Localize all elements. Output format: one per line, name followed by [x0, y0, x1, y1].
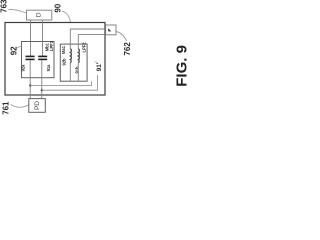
wire C1 lower leg to PD	[29, 60, 31, 98]
svg-text:91a: 91a	[46, 64, 51, 72]
svg-text:91b: 91b	[75, 66, 80, 74]
left LPF box 91a	[22, 42, 55, 78]
junction dot B	[41, 89, 43, 91]
terminal box 762 (antenna port)	[106, 25, 116, 35]
label 91'	[95, 62, 103, 72]
box D (duplexer)	[27, 10, 52, 20]
wire L1 top to terminal (upper)	[70, 29, 105, 49]
wire column 1 (D box to cap C1)	[30, 20, 32, 56]
ground bus B	[42, 75, 98, 90]
inductor L1	[70, 49, 71, 63]
svg-text:92: 92	[9, 46, 18, 55]
junction dot A	[29, 84, 31, 86]
svg-text:LPF1: LPF1	[49, 40, 54, 51]
label 762	[116, 32, 132, 56]
outer module box 90	[5, 23, 105, 96]
svg-text:761: 761	[2, 101, 11, 115]
wire column 2 (D box to cap C2)	[42, 20, 44, 56]
label 92	[9, 46, 21, 55]
svg-text:92b: 92b	[61, 58, 66, 66]
capacitor C1	[26, 56, 35, 59]
svg-text:Ma1: Ma1	[61, 45, 66, 54]
svg-text:D: D	[36, 12, 43, 17]
svg-text:LPF2: LPF2	[82, 42, 87, 53]
ground bus A	[30, 81, 91, 85]
wire C2 lower leg to PD	[41, 60, 43, 98]
svg-text:Mb1: Mb1	[44, 42, 49, 51]
capacitor C2	[38, 56, 47, 59]
svg-text:92a: 92a	[20, 64, 25, 72]
wire L2 top to terminal (lower)	[78, 34, 105, 48]
svg-text:91': 91'	[96, 62, 103, 71]
svg-text:763: 763	[0, 0, 9, 13]
svg-text:PD: PD	[34, 101, 41, 110]
wire L1 lower leg	[69, 63, 71, 81]
wire L2 lower leg	[77, 63, 79, 81]
inductor L2	[78, 49, 79, 63]
svg-text:90: 90	[53, 3, 62, 12]
label 763	[0, 0, 26, 13]
svg-text:762: 762	[123, 42, 132, 56]
PD box (photodiode/pad)	[29, 99, 46, 113]
label 90	[53, 3, 70, 22]
svg-text:FIG. 9: FIG. 9	[174, 45, 191, 87]
label 761	[2, 101, 29, 115]
right LPF box 91b	[60, 44, 87, 81]
